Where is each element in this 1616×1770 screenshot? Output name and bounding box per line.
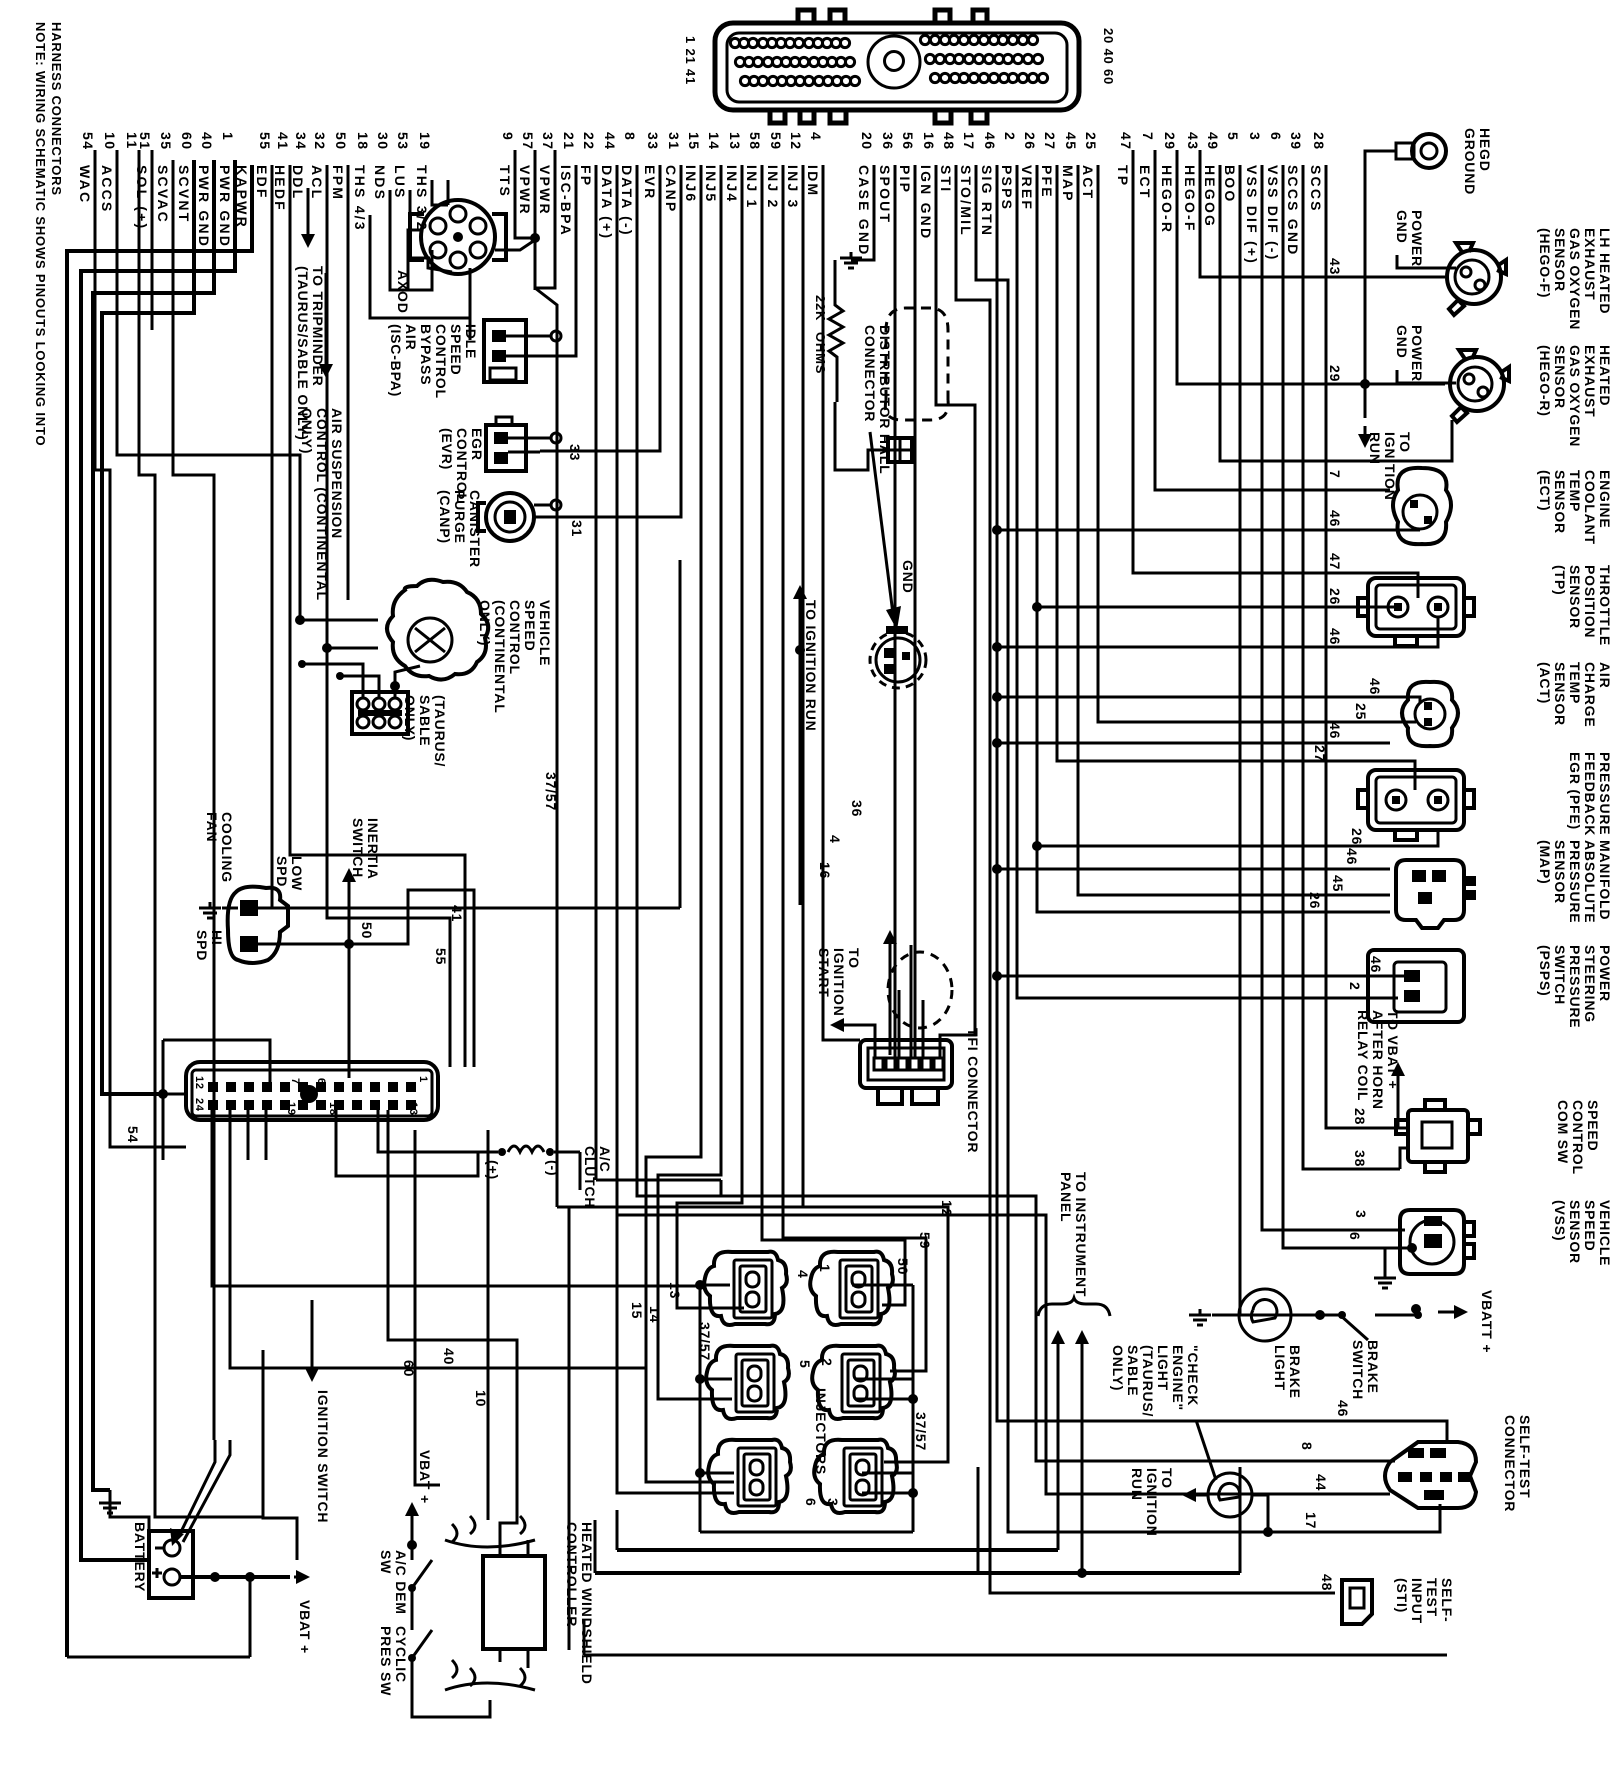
svg-text:BRAKE: BRAKE <box>1365 1340 1381 1394</box>
wire 40 PWR GND <box>93 160 214 1490</box>
svg-text:VSS DIF (+): VSS DIF (+) <box>1244 165 1260 265</box>
distributor hall connector dashed outline <box>886 308 948 400</box>
svg-text:38: 38 <box>1352 1150 1368 1167</box>
wire 45 MAP <box>1078 165 1390 895</box>
wire 33 EVR <box>540 165 660 451</box>
wire 6 VSS DIF(-) <box>1283 165 1412 1248</box>
IGNITION SWITCH label + arrow <box>311 1356 314 1374</box>
bulkhead pin wire to HW controller <box>388 1110 517 1542</box>
svg-text:CONTROL: CONTROL <box>507 600 523 675</box>
ignition module circle (dashed) <box>870 632 926 688</box>
svg-text:IGNITION: IGNITION <box>1144 1468 1160 1537</box>
injector 2 <box>812 1346 895 1419</box>
svg-text:49: 49 <box>1205 132 1221 151</box>
ECT sensor (engine coolant temp) <box>1393 468 1451 544</box>
wire 37 VPWR <box>535 150 555 288</box>
wire to ignition run (right top) <box>1364 200 1367 418</box>
svg-text:AFTER HORN: AFTER HORN <box>1370 1010 1386 1110</box>
svg-text:OHMS: OHMS <box>813 332 828 374</box>
svg-text:VBAT +: VBAT + <box>297 1600 313 1654</box>
svg-text:17: 17 <box>1303 1512 1319 1529</box>
wire 13 INJ4 <box>677 165 744 1308</box>
svg-text:50: 50 <box>359 922 375 939</box>
svg-text:39: 39 <box>1288 132 1304 151</box>
svg-text:SENSOR: SENSOR <box>1552 228 1568 292</box>
svg-text:PFE: PFE <box>1039 165 1055 199</box>
svg-text:INJ4: INJ4 <box>724 165 740 203</box>
Taurus/Sable connector (6-pin) <box>352 692 408 734</box>
wire 46 branch <box>997 696 1390 699</box>
svg-text:HARNESS CONNECTORS: HARNESS CONNECTORS <box>49 22 64 196</box>
svg-text:4: 4 <box>808 132 824 141</box>
injector right bus 37/57 <box>912 1285 915 1532</box>
svg-text:2: 2 <box>1347 982 1363 991</box>
svg-text:SOL (+): SOL (+) <box>134 165 150 230</box>
wire 43 HEGO-F <box>1200 150 1445 277</box>
svg-text:(CANP): (CANP) <box>437 490 453 544</box>
svg-text:DATA (-): DATA (-) <box>619 165 635 237</box>
VSC wires <box>300 619 378 622</box>
svg-text:STI: STI <box>938 165 954 193</box>
wire KAPWR <box>67 165 252 1657</box>
wire 19 THS 3/2 <box>432 180 448 205</box>
svg-text:32: 32 <box>312 132 328 151</box>
svg-text:SPD: SPD <box>274 856 290 887</box>
svg-text:CONTROL (CONTINENTAL: CONTROL (CONTINENTAL <box>314 408 330 601</box>
svg-text:7: 7 <box>1140 132 1156 141</box>
svg-text:IGN GND: IGN GND <box>918 165 934 240</box>
svg-text:AIR SUSPENSION: AIR SUSPENSION <box>329 408 345 539</box>
svg-text:ONLY): ONLY) <box>1110 1345 1126 1391</box>
svg-text:PRESSURE: PRESSURE <box>1567 945 1583 1028</box>
svg-text:SWITCH: SWITCH <box>1552 945 1568 1005</box>
TFI connector <box>860 1040 952 1088</box>
instrument panel arrows <box>1057 1338 1060 1346</box>
svg-text:IDLE: IDLE <box>463 324 479 359</box>
svg-text:IGNITION: IGNITION <box>831 948 847 1017</box>
injector nest outer wires <box>596 1179 721 1182</box>
CYCLIC PRES SW switch <box>411 1588 414 1630</box>
svg-text:13: 13 <box>407 1102 419 1116</box>
svg-text:ABSOLUTE: ABSOLUTE <box>1582 840 1598 923</box>
svg-text:SPEED: SPEED <box>1585 1100 1601 1151</box>
power gnd 2 wire <box>1397 370 1456 383</box>
svg-text:SCVAC: SCVAC <box>155 165 171 224</box>
battery ground <box>109 1497 112 1503</box>
brake light wire <box>1291 1314 1340 1317</box>
svg-text:TO: TO <box>1159 1468 1175 1489</box>
svg-text:1: 1 <box>220 132 236 141</box>
svg-text:BYPASS: BYPASS <box>418 324 434 385</box>
svg-text:TTS: TTS <box>497 165 513 198</box>
svg-text:CASE GND: CASE GND <box>856 165 872 257</box>
svg-text:HEGD: HEGD <box>1477 128 1493 172</box>
svg-text:GND: GND <box>900 560 916 594</box>
svg-text:PWR GND: PWR GND <box>196 165 212 248</box>
wire 46 branch <box>997 529 1390 532</box>
power gnd 1 wire <box>1397 255 1456 268</box>
svg-text:(CONTINENTAL: (CONTINENTAL <box>492 600 508 714</box>
svg-text:SABLE: SABLE <box>417 695 433 746</box>
svg-text:26: 26 <box>1349 828 1365 845</box>
wire 21 ISC-BPA <box>510 165 576 356</box>
svg-text:6: 6 <box>315 1078 327 1085</box>
wire 10 ACCS <box>117 150 300 620</box>
svg-text:SELF-TEST: SELF-TEST <box>1517 1415 1533 1498</box>
module top tab <box>886 626 908 634</box>
injector 5 <box>706 1346 789 1419</box>
svg-text:6: 6 <box>1347 1232 1363 1241</box>
svg-text:EVR: EVR <box>642 165 658 200</box>
svg-text:57: 57 <box>520 132 536 151</box>
svg-text:TEMP: TEMP <box>1567 470 1583 512</box>
svg-text:EGR (PFE): EGR (PFE) <box>1567 752 1583 830</box>
svg-text:47: 47 <box>1118 132 1134 151</box>
battery <box>149 1531 193 1598</box>
svg-text:LUS: LUS <box>392 165 408 200</box>
wire 25 ACT <box>1098 165 1390 722</box>
svg-text:44: 44 <box>1313 1474 1329 1491</box>
svg-text:ACL: ACL <box>309 165 325 200</box>
svg-text:ONLY): ONLY) <box>477 600 493 646</box>
svg-text:36: 36 <box>849 800 865 817</box>
diagonal arrow to module <box>870 432 893 614</box>
svg-text:NOTE: WIRING SCHEMATIC SHOWS P: NOTE: WIRING SCHEMATIC SHOWS PINOUTS LOO… <box>33 22 48 446</box>
svg-text:EDF: EDF <box>254 165 270 200</box>
svg-text:(TAURUS/: (TAURUS/ <box>1140 1345 1156 1417</box>
svg-text:ONLY): ONLY) <box>402 695 418 741</box>
ECU pin holes left block <box>730 38 859 85</box>
AXOD wires to THS <box>447 180 450 205</box>
svg-text:55: 55 <box>257 132 273 151</box>
svg-text:HEATED WINDSHIELD: HEATED WINDSHIELD <box>579 1522 595 1685</box>
svg-text:CONNECTOR: CONNECTOR <box>862 325 878 422</box>
wire 46 branch <box>997 868 1390 871</box>
wire 35 SCVAC <box>173 160 214 1440</box>
svg-text:EXHAUST: EXHAUST <box>1582 228 1598 301</box>
svg-text:13: 13 <box>727 132 743 151</box>
injector 4 <box>704 1252 787 1325</box>
svg-text:DISTRIBUTOR HALL: DISTRIBUTOR HALL <box>877 325 893 474</box>
wire 54 WAC <box>95 150 186 1147</box>
svg-text:SW: SW <box>378 1550 394 1574</box>
svg-text:1 21 41: 1 21 41 <box>683 36 698 85</box>
wire 46 branch <box>997 742 1390 745</box>
svg-text:FP: FP <box>578 165 594 187</box>
wire 15 INJ6 <box>646 165 734 1482</box>
svg-text:59: 59 <box>917 1232 933 1249</box>
EGR control EVR connector <box>486 425 526 471</box>
injector right feeds <box>852 1284 913 1287</box>
svg-text:INPUT: INPUT <box>1409 1578 1425 1624</box>
bulkhead connector pins row 2 <box>208 1100 416 1110</box>
svg-text:12: 12 <box>193 1076 205 1090</box>
svg-text:A/C: A/C <box>597 1146 613 1173</box>
svg-text:58: 58 <box>747 132 763 151</box>
svg-text:50: 50 <box>333 132 349 151</box>
arrow up to VBAT <box>1397 1070 1400 1112</box>
svg-text:54: 54 <box>80 132 96 151</box>
wire 26 branch PFE <box>1037 830 1438 846</box>
svg-text:EXHAUST: EXHAUST <box>1582 345 1598 418</box>
svg-text:TO: TO <box>1397 432 1413 453</box>
svg-text:27: 27 <box>1312 745 1328 762</box>
injector left feeds <box>617 1215 734 1493</box>
svg-text:A/C DEM: A/C DEM <box>393 1550 409 1615</box>
svg-text:SPOUT: SPOUT <box>877 165 893 224</box>
svg-text:SPEED: SPEED <box>1582 1200 1598 1251</box>
svg-text:VEHICLE: VEHICLE <box>537 600 553 666</box>
svg-text:(EVR): (EVR) <box>439 428 455 470</box>
svg-text:SELF-: SELF- <box>1439 1578 1455 1622</box>
svg-text:29: 29 <box>1327 365 1343 382</box>
svg-text:CANP: CANP <box>663 165 679 213</box>
STI connector (self-test input) <box>1342 1580 1372 1624</box>
svg-text:ISC-BPA: ISC-BPA <box>558 165 574 237</box>
svg-text:26: 26 <box>1307 892 1323 909</box>
svg-text:14: 14 <box>706 132 722 151</box>
svg-text:RUN: RUN <box>1129 1468 1145 1501</box>
svg-text:(MAP): (MAP) <box>1537 840 1553 884</box>
svg-text:ACCS: ACCS <box>99 165 115 213</box>
svg-text:CYCLIC: CYCLIC <box>393 1626 409 1683</box>
bulkhead bottom wires <box>247 1110 250 1160</box>
wire 22 FP <box>595 165 598 1180</box>
svg-text:55: 55 <box>433 948 449 965</box>
svg-text:WAC: WAC <box>77 165 93 204</box>
svg-text:STEERING: STEERING <box>1582 945 1598 1023</box>
svg-text:59: 59 <box>768 132 784 151</box>
wire 17 STO/MIL <box>976 165 1440 1532</box>
svg-text:(HEGO-F): (HEGO-F) <box>1537 228 1553 298</box>
wire 50 FPM <box>347 165 350 600</box>
svg-text:TFI CONNECTOR: TFI CONNECTOR <box>965 1028 981 1153</box>
wire VPWR rail 37/57 <box>534 238 537 290</box>
svg-text:34: 34 <box>293 132 309 151</box>
svg-text:TP: TP <box>1115 165 1131 187</box>
svg-text:51: 51 <box>137 132 153 151</box>
svg-text:GND: GND <box>1394 210 1410 244</box>
svg-text:25: 25 <box>1083 132 1099 151</box>
injector left bus 37/57 <box>699 1285 702 1532</box>
svg-text:CONTROLLER: CONTROLLER <box>564 1522 580 1627</box>
svg-text:LIGHT: LIGHT <box>1155 1345 1171 1391</box>
A/C clutch coil <box>508 1146 544 1152</box>
svg-text:7: 7 <box>1327 470 1343 479</box>
svg-text:46: 46 <box>982 132 998 151</box>
svg-text:18: 18 <box>355 132 371 151</box>
wire 5 BOO <box>1240 165 1295 1315</box>
svg-text:INJ6: INJ6 <box>683 165 699 203</box>
wire 53 LUS <box>410 190 430 258</box>
svg-text:6: 6 <box>1268 132 1284 141</box>
HEGD ground ring terminal <box>1412 134 1446 168</box>
wire 26 branch TP <box>1037 606 1390 609</box>
svg-text:FPM: FPM <box>330 165 346 201</box>
svg-text:INJ5: INJ5 <box>703 165 719 203</box>
svg-text:4: 4 <box>827 835 843 844</box>
svg-text:SPEED: SPEED <box>522 600 538 651</box>
svg-text:16: 16 <box>817 862 833 879</box>
svg-text:25: 25 <box>1353 703 1369 720</box>
wire 1 PWR GND <box>81 160 235 1560</box>
svg-text:IGNITION SWITCH: IGNITION SWITCH <box>315 1390 331 1523</box>
wire 9 TTS <box>515 150 535 238</box>
wire 26 VREF <box>1037 165 1390 912</box>
svg-text:DDL: DDL <box>290 165 306 200</box>
svg-text:LH HEATED: LH HEATED <box>1597 228 1613 314</box>
svg-text:BRAKE: BRAKE <box>1287 1345 1303 1399</box>
svg-text:24: 24 <box>193 1098 205 1112</box>
bottom right runs <box>1239 1467 1242 1573</box>
svg-text:SCCS GND: SCCS GND <box>1285 165 1301 257</box>
svg-text:SENSOR: SENSOR <box>1552 840 1568 904</box>
wire 27 PFE <box>1057 165 1390 761</box>
A/C clutch wires <box>336 1110 478 1176</box>
wire 46 SIG RTN <box>997 165 1447 1444</box>
svg-text:(HEGO-R): (HEGO-R) <box>1537 345 1553 417</box>
svg-text:POWER: POWER <box>1597 945 1613 1002</box>
svg-text:16: 16 <box>921 132 937 151</box>
svg-text:VBATT +: VBATT + <box>1479 1290 1495 1353</box>
svg-text:(TAURUS/: (TAURUS/ <box>432 695 448 767</box>
check engine to STO wire <box>1252 1495 1268 1532</box>
HEGO-F sensor (LH heated exhaust gas oxygen sensor) <box>1447 250 1501 304</box>
svg-text:21: 21 <box>561 132 577 151</box>
svg-text:CONTROL: CONTROL <box>433 324 449 399</box>
svg-text:NDS: NDS <box>372 165 388 201</box>
svg-text:POSITION: POSITION <box>1582 565 1598 638</box>
svg-text:LIGHT: LIGHT <box>1272 1345 1288 1391</box>
bulkhead left wire <box>163 1093 186 1096</box>
svg-text:12: 12 <box>788 132 804 151</box>
svg-text:29: 29 <box>1162 132 1178 151</box>
wire 20 CASE GND <box>851 165 874 260</box>
svg-text:INJECTORS: INJECTORS <box>813 1388 829 1475</box>
injector 6 <box>708 1440 791 1513</box>
svg-text:HI: HI <box>209 930 225 946</box>
svg-text:SPEED: SPEED <box>448 324 464 375</box>
svg-text:48: 48 <box>941 132 957 151</box>
long bottom wire y1655 <box>584 1654 1447 1657</box>
svg-text:37/57: 37/57 <box>543 772 559 811</box>
VSS sensor (vehicle speed) <box>1400 1210 1464 1274</box>
svg-text:48: 48 <box>1319 1574 1335 1591</box>
heated windshield controller box <box>483 1556 545 1649</box>
distributor base dashed ellipse <box>888 952 952 1028</box>
svg-text:46: 46 <box>1344 848 1360 865</box>
long bottom wire y1550 <box>617 1548 1058 1552</box>
svg-text:(ISC-BPA): (ISC-BPA) <box>388 324 404 397</box>
svg-text:45: 45 <box>1330 875 1346 892</box>
wire 39 SCCS GND <box>1303 165 1400 1169</box>
svg-text:3: 3 <box>1353 1210 1369 1219</box>
self-test connector <box>1385 1442 1476 1508</box>
svg-text:AIR: AIR <box>403 324 419 351</box>
svg-text:SENSOR: SENSOR <box>1567 565 1583 629</box>
arrow to tripminder (Taurus/Sable only) <box>325 273 328 370</box>
svg-text:DATA (+): DATA (+) <box>599 165 615 240</box>
vehicle speed control servo <box>387 580 488 680</box>
hall connector wires <box>856 450 888 470</box>
svg-text:SABLE: SABLE <box>1125 1345 1141 1396</box>
svg-text:RELAY COIL: RELAY COIL <box>1355 1010 1371 1101</box>
svg-text:SENSOR: SENSOR <box>1552 345 1568 409</box>
svg-text:41: 41 <box>275 132 291 151</box>
svg-text:46: 46 <box>1367 678 1383 695</box>
svg-text:ENGINE": ENGINE" <box>1170 1345 1186 1411</box>
HW wires <box>499 1540 502 1556</box>
instrument panel brace <box>1038 1298 1110 1316</box>
wire 49 HEGOG <box>1220 165 1452 461</box>
svg-text:50: 50 <box>895 1258 911 1275</box>
battery negative feed diagonals <box>178 1440 215 1538</box>
svg-text:5: 5 <box>1225 132 1241 141</box>
svg-text:10: 10 <box>102 132 118 151</box>
svg-text:POWER: POWER <box>1409 325 1425 382</box>
wire 59 INJ2 <box>783 165 926 1371</box>
svg-text:PIP: PIP <box>897 165 913 194</box>
svg-text:TEST: TEST <box>1424 1578 1440 1617</box>
svg-text:SWITCH: SWITCH <box>1350 1340 1366 1400</box>
svg-text:TO INSTRUMENT: TO INSTRUMENT <box>1073 1172 1089 1297</box>
wire 58 INJ1 <box>762 165 905 1305</box>
svg-text:22: 22 <box>581 132 597 151</box>
svg-text:HEATED: HEATED <box>1597 345 1613 406</box>
bulkhead connector pins row 1 <box>208 1082 416 1092</box>
svg-text:5: 5 <box>797 1360 813 1369</box>
brake light ground <box>1212 1314 1239 1317</box>
wire 7 ECT <box>1155 150 1390 490</box>
svg-text:CLUTCH: CLUTCH <box>582 1146 598 1208</box>
svg-text:(VSS): (VSS) <box>1552 1200 1568 1241</box>
svg-text:BATTERY: BATTERY <box>132 1522 148 1592</box>
svg-text:INERTIA: INERTIA <box>365 818 381 880</box>
TP sensor (throttle position) <box>1368 578 1464 636</box>
svg-text:43: 43 <box>1327 258 1343 275</box>
svg-text:CHARGE: CHARGE <box>1582 662 1598 727</box>
svg-text:9: 9 <box>500 132 516 141</box>
svg-text:SPD: SPD <box>194 930 210 961</box>
PSPS switch (power steering pressure) <box>1368 950 1464 1022</box>
TO IGNITION START arrow <box>889 938 892 956</box>
svg-text:44: 44 <box>602 132 618 151</box>
svg-text:ENGINE: ENGINE <box>1597 470 1613 528</box>
svg-text:36: 36 <box>880 132 896 151</box>
svg-text:HEGO-R: HEGO-R <box>1159 165 1175 234</box>
ECU connector center circle <box>868 36 920 88</box>
check engine pointer line <box>1196 1420 1216 1480</box>
svg-text:INJ 1: INJ 1 <box>744 165 760 209</box>
svg-text:EGR: EGR <box>469 428 485 461</box>
brake light <box>1239 1289 1291 1341</box>
svg-text:CONNECTOR: CONNECTOR <box>1502 1415 1518 1512</box>
svg-text:13: 13 <box>667 1282 683 1299</box>
ISC-BPA valve (idle speed control bypass air) <box>484 320 526 382</box>
svg-text:(ECT): (ECT) <box>1537 470 1553 511</box>
svg-text:IDM: IDM <box>805 165 821 197</box>
svg-text:COOLANT: COOLANT <box>1582 470 1598 545</box>
wire 36 SPOUT <box>894 165 897 1058</box>
svg-text:THS 4/3: THS 4/3 <box>352 165 368 232</box>
VBAT+ arrow mid bottom <box>411 1510 414 1536</box>
brake switch <box>1340 1315 1368 1340</box>
svg-text:20: 20 <box>859 132 875 151</box>
VBATT+ arrow bottom right <box>1438 1311 1460 1314</box>
svg-text:MANIFOLD: MANIFOLD <box>1597 840 1613 920</box>
wire 29 HEGO-R <box>1177 150 1445 384</box>
wire 18 THS 4/3 <box>370 215 470 318</box>
